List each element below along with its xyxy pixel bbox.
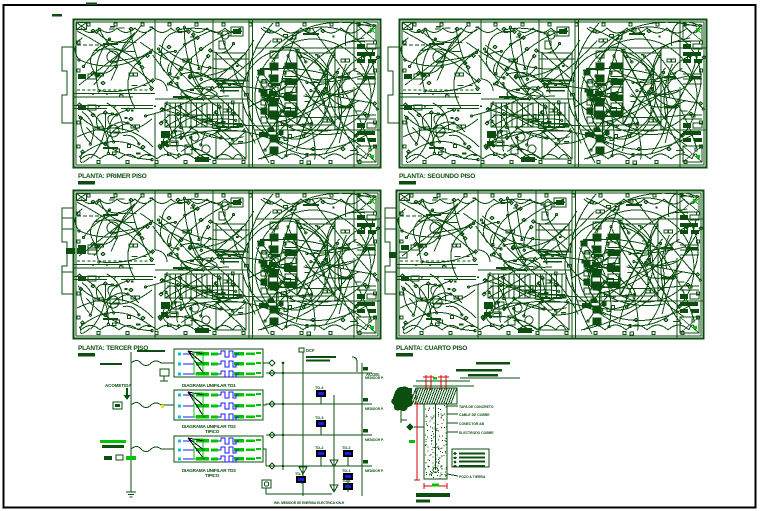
- medidores note: [306, 356, 336, 358]
- ground detail: lime mark: [433, 377, 437, 380]
- TD-1c box: [342, 479, 353, 490]
- ground symbol bottom of bus: [126, 487, 136, 497]
- TD-1b box: [342, 469, 353, 480]
- ground detail: diamond tap: [406, 424, 414, 431]
- ground detail: red bottom dimension: [424, 483, 447, 489]
- DCF label: [299, 348, 315, 353]
- svg-text:TD-1: TD-1: [342, 469, 350, 473]
- top right note: [456, 369, 502, 371]
- floor line piso 3: [266, 403, 362, 405]
- riser connectors: [301, 397, 348, 492]
- svg-text:TIPICO: TIPICO: [205, 473, 220, 478]
- riser vertical line 1: [282, 363, 284, 470]
- tick mark top left b: [86, 3, 97, 5]
- TD-2 box: [315, 446, 326, 457]
- unifilar diagram TD1 box: [174, 349, 263, 377]
- svg-text:DCF: DCF: [306, 348, 315, 353]
- unifilar diagram TD3 box: [174, 436, 263, 462]
- svg-text:PLANTA: CUARTO PISO: PLANTA: CUARTO PISO: [396, 345, 467, 352]
- svg-text:MEDIDOR P.: MEDIDOR P.: [365, 407, 384, 411]
- symbols row left: [104, 455, 136, 460]
- svg-text:MEDIDOR P.: MEDIDOR P.: [365, 438, 384, 442]
- balconies plan 4: [385, 208, 407, 294]
- meter boxes left: [113, 402, 122, 409]
- tick mark top left a: [52, 14, 62, 16]
- floor line piso 2: [266, 434, 362, 436]
- svg-text:TD-2: TD-2: [342, 446, 350, 450]
- TD-1 box: [295, 472, 306, 483]
- floor plan 2: segundo piso: [388, 20, 706, 168]
- yellow mark: [161, 405, 164, 408]
- floor line piso 4: [266, 372, 362, 374]
- svg-text:CABLE DE COBRE: CABLE DE COBRE: [459, 413, 490, 417]
- riser vertical line 2: [302, 352, 304, 496]
- TD-3 box: [315, 416, 326, 427]
- floor plan 4: cuarto piso: [385, 191, 703, 339]
- svg-text:ACOMETIDA: ACOMETIDA: [105, 383, 132, 388]
- ground detail: connector square: [407, 388, 412, 393]
- legend box: [452, 449, 489, 468]
- junction triangles: [299, 460, 338, 492]
- ground detail: shrub symbol: [391, 387, 413, 411]
- line to unifilar box TD1: [263, 362, 269, 364]
- svg-text:DIAGRAMA UNIFILAR TD1: DIAGRAMA UNIFILAR TD1: [182, 383, 236, 388]
- svg-text:ELECTRODO COBRE: ELECTRODO COBRE: [459, 431, 494, 435]
- detail title: [416, 493, 450, 497]
- svg-text:TD-4: TD-4: [315, 386, 324, 390]
- svg-text:CONECTOR AB: CONECTOR AB: [459, 422, 485, 426]
- floor plan 3: tercer piso: [62, 191, 380, 339]
- floor line piso 1: [266, 465, 362, 467]
- line to unifilar box TD3: [263, 449, 266, 466]
- svg-text:POZO A TIERRA: POZO A TIERRA: [459, 475, 486, 479]
- dim label bottom: [432, 484, 439, 487]
- lime-green label pair left: [100, 440, 126, 443]
- TA box: [160, 369, 169, 381]
- svg-text:MEDIDOR P.: MEDIDOR P.: [365, 469, 384, 473]
- down arrow symbol: [124, 388, 131, 400]
- svg-text:PLANTA: PRIMER PISO: PLANTA: PRIMER PISO: [78, 173, 147, 180]
- TD-2b box: [342, 446, 353, 457]
- ground detail: red vertical dimension: [414, 404, 420, 480]
- callout labels right: [447, 405, 494, 435]
- svg-text:TD-2: TD-2: [315, 446, 323, 450]
- meter square bottom left: [262, 480, 271, 488]
- ground detail: cap hatch: [410, 388, 457, 404]
- ground detail: top slab lines: [413, 378, 520, 386]
- balconies plan 3: [62, 208, 97, 294]
- floor plan 1: primer piso: [62, 20, 380, 168]
- ground detail: red ticks: [423, 375, 449, 390]
- feeder squiggle to TD3: [131, 447, 174, 452]
- TD-4 box: [315, 386, 326, 397]
- feeder squiggle to TD2: [131, 403, 174, 408]
- unifilar diagram TD2 box: [174, 390, 263, 420]
- floor diamonds: [269, 360, 284, 469]
- feeder squiggle to TD1: [131, 361, 174, 366]
- svg-text:PLANTA: SEGUNDO PISO: PLANTA: SEGUNDO PISO: [399, 173, 475, 180]
- svg-text:TD-1: TD-1: [342, 479, 350, 483]
- acometida hook: [352, 357, 357, 372]
- svg-text:TAPA DE CONCRETO: TAPA DE CONCRETO: [459, 405, 494, 409]
- note above TD1: [137, 350, 165, 352]
- ground detail: pole body with stipple: [424, 404, 447, 479]
- bottom horizontal line: [266, 488, 332, 496]
- line to unifilar box TD2: [263, 404, 266, 405]
- riser vertical line 3: [333, 395, 335, 492]
- right stubs and labels: [362, 367, 384, 473]
- feeder bus vertical line: [130, 352, 132, 487]
- dim label vertical: [409, 440, 415, 443]
- svg-text:TD-3: TD-3: [315, 416, 323, 420]
- svg-text:MEDIDOR P.: MEDIDOR P.: [365, 376, 384, 380]
- svg-text:TIPICO: TIPICO: [205, 429, 220, 434]
- svg-text:WH- MEDIDOR DE ENERGIA ELECTRI: WH- MEDIDOR DE ENERGIA ELECTRICA KW-H: [274, 501, 345, 505]
- riser vertical line 4: [361, 363, 363, 496]
